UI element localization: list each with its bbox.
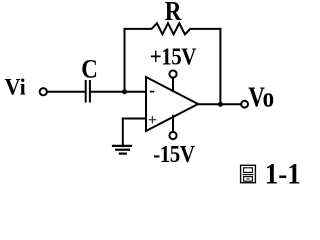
svg-text:Vi: Vi <box>5 74 26 100</box>
svg-text:1-1: 1-1 <box>265 159 301 191</box>
svg-text:-15V: -15V <box>153 140 195 167</box>
svg-text:C: C <box>81 55 98 84</box>
svg-text:R: R <box>165 0 182 27</box>
svg-text:+15V: +15V <box>150 43 197 70</box>
svg-text:Vo: Vo <box>248 81 274 113</box>
